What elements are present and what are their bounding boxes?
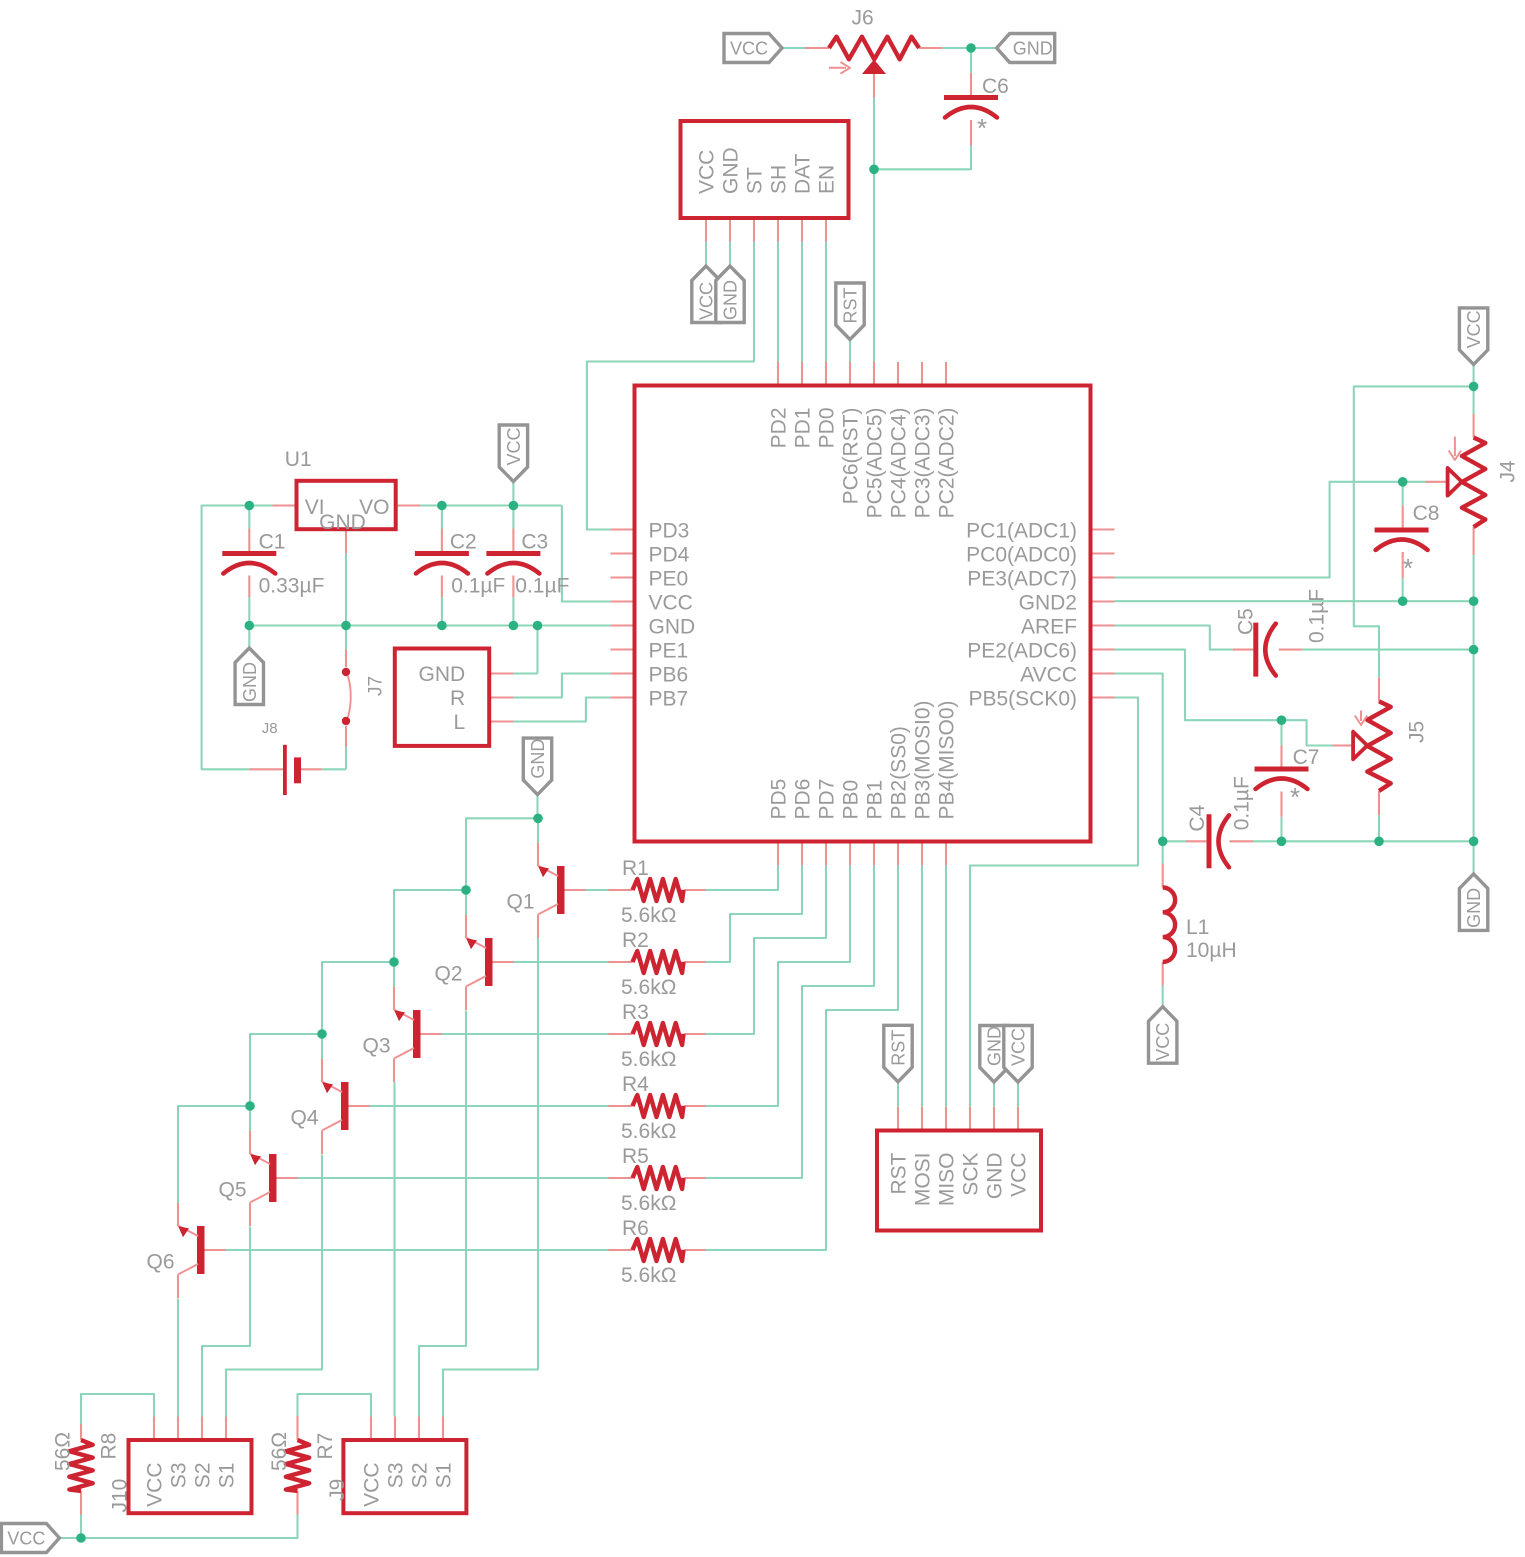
wire emitter ladder Q5-Q6 [178, 1106, 250, 1203]
resistor R4 [633, 1095, 684, 1117]
GND flag above Q1 [523, 738, 551, 795]
svg-text:PB2(SS0): PB2(SS0) [888, 726, 911, 819]
svg-text:SH: SH [768, 165, 791, 194]
wire conn VCC pin to flag [705, 242, 707, 267]
svg-text:PD0: PD0 [816, 408, 839, 449]
svg-text:GND2: GND2 [1019, 592, 1077, 615]
wire R5 to PB1 [706, 865, 875, 1178]
svg-text:PB5(SCK0): PB5(SCK0) [968, 688, 1077, 711]
connector J10 box (VCC S3 S2 S1) [129, 1440, 252, 1513]
wire L1 bottom to VCC flag [1162, 986, 1164, 1007]
wire emitter ladder Q2-Q3 [394, 890, 466, 987]
svg-text:J8: J8 [262, 720, 278, 737]
transistor Q5 [269, 1154, 277, 1202]
wire J6 to GND flag [942, 47, 997, 49]
node C2 top [437, 501, 447, 511]
svg-text:56Ω: 56Ω [268, 1432, 291, 1471]
inductor L1 [1163, 888, 1175, 962]
svg-text:GND: GND [419, 663, 466, 686]
wire Q6 base to R6 [226, 1249, 609, 1251]
node VCC bottom [76, 1533, 86, 1543]
svg-text:R2: R2 [622, 929, 649, 952]
svg-text:PD2: PD2 [768, 408, 791, 449]
wire GND2 to GND column [1115, 600, 1474, 602]
svg-text:PE1: PE1 [649, 640, 689, 663]
resistor R2 [633, 951, 684, 973]
wire VCC flag to J4 top [1473, 364, 1475, 386]
svg-text:VCC: VCC [1153, 1023, 1173, 1061]
battery J8 [283, 745, 287, 795]
wire R8 bottom [80, 1515, 82, 1539]
wire RST flag to PC6 [849, 340, 851, 363]
node C3/VCC flag [509, 501, 519, 511]
wire R7 top to J9 VCC [298, 1394, 372, 1417]
wire GND rail to flag [248, 626, 250, 649]
IC bottom pin stubs [777, 842, 779, 866]
U1 pin stubs [273, 504, 297, 506]
C8 stubs [1402, 506, 1404, 529]
svg-text:R1: R1 [622, 857, 649, 880]
J4 lead stubs [1473, 414, 1475, 438]
node J7 GND [533, 621, 543, 631]
wire GND flag to emitter ladder [536, 795, 538, 819]
wire VCC flag to ISP [1017, 1082, 1019, 1107]
capacitor C1 [222, 551, 276, 556]
connector box (VCC GND ST SH DAT EN) [681, 121, 849, 218]
wire PB4 to MISO [945, 865, 947, 1107]
wire switch to battery - [345, 747, 347, 770]
node C3 bottom [509, 621, 519, 631]
capacitor C2 [415, 551, 469, 556]
wire C7 top lead [1280, 720, 1282, 745]
svg-text:PD4: PD4 [649, 544, 690, 567]
wire J6 right stub [919, 47, 942, 49]
svg-text:AVCC: AVCC [1020, 664, 1077, 687]
wire J6 wiper to PC5(ADC5) [873, 98, 875, 363]
svg-text:PE2(ADC6): PE2(ADC6) [967, 640, 1077, 663]
svg-text:GND: GND [649, 616, 696, 639]
capacitor C5 [1253, 623, 1258, 677]
node J4 bottom GND [1469, 596, 1479, 606]
svg-text:SCK: SCK [960, 1153, 983, 1196]
IC left pin stubs [611, 528, 635, 530]
svg-text:*: * [1403, 553, 1413, 583]
resistor R6 [633, 1239, 684, 1261]
svg-text:DAT: DAT [792, 153, 815, 194]
svg-text:GND: GND [1013, 39, 1053, 59]
resistor R1 [633, 879, 684, 901]
svg-text:PB6: PB6 [649, 664, 689, 687]
wire Q5 collector to J10 S2 [202, 1227, 250, 1417]
svg-text:S2: S2 [192, 1463, 215, 1489]
svg-text:ST: ST [744, 167, 767, 194]
svg-text:Q6: Q6 [147, 1251, 175, 1274]
svg-text:R4: R4 [622, 1073, 649, 1096]
J7 switch stubs [345, 650, 347, 667]
svg-text:C1: C1 [259, 531, 286, 554]
wire DAT to PD1 [801, 242, 803, 363]
wire J5 bottom lead [1378, 815, 1380, 841]
wire GND rail [249, 624, 610, 626]
RST flag above IC [836, 283, 864, 340]
svg-text:S1: S1 [433, 1463, 456, 1489]
svg-text:C3: C3 [521, 531, 548, 554]
svg-text:C7: C7 [1293, 746, 1320, 769]
capacitor C4 [1207, 814, 1212, 868]
svg-text:GND: GND [1464, 888, 1484, 928]
C7 stubs [1280, 745, 1282, 766]
resistor R7 [286, 1440, 309, 1491]
C4 stubs [1186, 840, 1206, 842]
wire VCC flag to J6 [782, 47, 805, 49]
C5 stubs [1233, 649, 1254, 651]
VCC flag under L1 [1149, 1007, 1177, 1063]
trimmer J4 [1462, 438, 1485, 528]
svg-text:PB0: PB0 [840, 780, 863, 820]
svg-text:J9: J9 [326, 1479, 349, 1501]
connector pin stubs [705, 218, 707, 242]
svg-text:R3: R3 [622, 1001, 649, 1024]
switch J7 (battery disconnect) [342, 668, 350, 676]
wire R6 to PB2 [706, 865, 899, 1250]
svg-text:Q1: Q1 [507, 891, 535, 914]
trimmer J5 [1367, 701, 1390, 791]
svg-text:0.1µF: 0.1µF [515, 575, 569, 598]
wire C1 top lead [248, 506, 250, 529]
svg-text:5.6kΩ: 5.6kΩ [621, 976, 676, 999]
GND flag under connector [716, 266, 744, 323]
svg-text:AREF: AREF [1021, 616, 1077, 639]
svg-text:VCC: VCC [504, 427, 524, 465]
svg-text:MOSI: MOSI [912, 1153, 935, 1207]
svg-text:*: * [1290, 782, 1300, 812]
svg-text:5.6kΩ: 5.6kΩ [621, 1264, 676, 1287]
GND flag left rail [235, 648, 263, 705]
svg-text:VCC: VCC [697, 282, 717, 320]
svg-text:L: L [454, 711, 466, 734]
VCC flag under connector [692, 266, 720, 323]
svg-text:GND: GND [240, 662, 260, 702]
svg-text:VCC: VCC [1464, 310, 1484, 348]
wire J7 GND pin up to rail [514, 672, 538, 674]
svg-text:R5: R5 [622, 1145, 649, 1168]
capacitor C3 [486, 551, 540, 556]
svg-text:Q2: Q2 [435, 963, 463, 986]
wire Q6 collector to J10 S3 [177, 1299, 179, 1417]
wire J6 wiper stub [873, 74, 875, 98]
svg-text:PE0: PE0 [649, 568, 689, 591]
svg-text:VCC: VCC [649, 592, 693, 615]
svg-text:R6: R6 [622, 1217, 649, 1240]
svg-text:PB1: PB1 [864, 780, 887, 820]
transistor Q4 [341, 1082, 349, 1130]
wire SH to PD2 [777, 242, 779, 363]
capacitor C6 [944, 95, 998, 100]
L1 stubs [1162, 864, 1164, 888]
svg-text:GND: GND [984, 1153, 1007, 1200]
transistor Q6 [197, 1226, 205, 1274]
svg-text:5.6kΩ: 5.6kΩ [621, 1120, 676, 1143]
svg-text:Q3: Q3 [363, 1035, 391, 1058]
capacitor C7 [1255, 767, 1309, 772]
main IC box ATmega [635, 386, 1091, 842]
node C5 right GND [1469, 645, 1479, 655]
connector J9 box (VCC S3 S2 S1) [343, 1440, 466, 1513]
node J6/GND junction [966, 43, 976, 53]
svg-text:10µH: 10µH [1186, 939, 1237, 962]
node C8 bottom [1398, 596, 1408, 606]
svg-text:L1: L1 [1186, 916, 1209, 939]
node J5 bottom [1374, 837, 1384, 847]
svg-text:GND: GND [721, 280, 741, 320]
svg-text:VCC: VCC [1009, 1028, 1029, 1066]
connector J7 box (GND R L) [395, 649, 489, 746]
svg-text:RST: RST [888, 1152, 911, 1194]
svg-text:GND: GND [720, 147, 743, 194]
svg-text:Q5: Q5 [219, 1179, 247, 1202]
VCC flag top left [724, 34, 782, 63]
node VCC right top [1469, 382, 1479, 392]
ISP pin stubs [897, 1107, 899, 1131]
trimmer J6 [829, 37, 919, 60]
svg-text:EN: EN [816, 165, 839, 194]
svg-text:C8: C8 [1413, 502, 1440, 525]
wire C4 left lead [1163, 840, 1186, 842]
wire C7 junction to J5 wiper [1282, 720, 1333, 745]
R7 lead stubs [296, 1416, 298, 1440]
VCC flag top right [1459, 308, 1487, 365]
svg-text:PD6: PD6 [792, 779, 815, 820]
svg-text:PD1: PD1 [792, 408, 815, 449]
svg-text:GND: GND [319, 511, 366, 534]
R1-R6 lead stubs [609, 889, 633, 891]
wire Q3 collector to J9 S3 [393, 1082, 395, 1417]
svg-text:MISO: MISO [936, 1153, 959, 1207]
svg-text:PC5(ADC5): PC5(ADC5) [864, 408, 887, 519]
wire GND flag to ISP [993, 1082, 995, 1107]
transistor Q2 [485, 938, 493, 986]
capacitor C8 [1375, 528, 1429, 533]
wire Q1 base to R1 [586, 889, 609, 891]
svg-text:GND: GND [985, 1026, 1005, 1066]
node ladder Q2 [461, 885, 471, 895]
IC right pin stubs [1091, 528, 1115, 530]
wire RST flag to ISP [897, 1082, 899, 1107]
svg-text:U1: U1 [285, 448, 312, 471]
wire junction to C6 top [970, 48, 972, 73]
GND flag top right [997, 34, 1055, 63]
wire Q4 base to R4 [370, 1105, 609, 1107]
wire J7 L to PB7 [514, 698, 611, 722]
svg-text:R: R [450, 687, 465, 710]
wire VCC to J5 top [1354, 386, 1474, 678]
J10 pin stubs [153, 1417, 155, 1441]
node AVCC/C4/L1 [1158, 837, 1168, 847]
J5 lead stubs [1378, 678, 1380, 702]
wire conn GND pin to flag [729, 242, 731, 267]
svg-text:0.1µF: 0.1µF [1231, 776, 1254, 830]
wire R8 top to J10 VCC [81, 1394, 154, 1424]
wire Q3 base to R3 [442, 1033, 609, 1035]
wire VO rail to IC VCC [420, 504, 562, 506]
R8 lead stubs [80, 1424, 82, 1440]
wire PE2 to C7 junction [1115, 650, 1282, 721]
wire J7 R to PB6 [514, 674, 611, 698]
wire Q2 base to R2 [514, 961, 609, 963]
wire J6 left stub [805, 47, 829, 49]
J9 pin stubs [370, 1417, 372, 1441]
svg-text:*: * [977, 113, 987, 143]
C1 C2 C3 stubs [248, 529, 250, 552]
wire C2 top lead [441, 506, 443, 529]
svg-text:C5: C5 [1234, 608, 1257, 635]
wire VI to battery + [202, 506, 273, 770]
resistor R3 [633, 1023, 684, 1045]
wire C5 right to GND column [1302, 649, 1474, 651]
wire emitter ladder Q1-Q2 [466, 818, 538, 915]
svg-text:GND: GND [528, 739, 548, 779]
wire R3 to PD7 [706, 865, 827, 1034]
wire Q1 emitter [537, 818, 539, 843]
VCC flag above ISP [1004, 1026, 1032, 1083]
wire C2 bottom lead [441, 597, 443, 626]
svg-text:VCC: VCC [144, 1463, 167, 1507]
svg-text:RST: RST [841, 287, 861, 323]
node C7 bottom [1277, 837, 1287, 847]
wire L1 top lead [1162, 841, 1164, 863]
node VI rail [245, 501, 255, 511]
svg-text:PD7: PD7 [816, 779, 839, 820]
GND flag above ISP [980, 1026, 1008, 1083]
svg-text:C4: C4 [1186, 804, 1209, 831]
connector ISP box (RST MOSI MISO SCK GND VCC) [877, 1131, 1041, 1231]
svg-text:0.1µF: 0.1µF [1305, 589, 1328, 643]
svg-text:PC4(ADC4): PC4(ADC4) [888, 408, 911, 519]
svg-text:J7: J7 [365, 676, 386, 696]
wire C6 bottom to J6 wiper net [874, 146, 971, 170]
svg-text:J5: J5 [1405, 721, 1428, 743]
svg-text:RST: RST [889, 1030, 909, 1066]
svg-text:PE3(ADC7): PE3(ADC7) [967, 568, 1077, 591]
wire C4 right to GND column [1253, 840, 1474, 842]
node GND flag ladder [533, 814, 543, 824]
svg-text:S2: S2 [409, 1463, 432, 1489]
svg-text:VCC: VCC [361, 1463, 384, 1507]
svg-text:0.1µF: 0.1µF [451, 575, 505, 598]
resistor R8 [69, 1440, 92, 1491]
svg-text:PC1(ADC1): PC1(ADC1) [966, 520, 1077, 543]
node C1 bottom [245, 621, 255, 631]
svg-text:J6: J6 [852, 7, 874, 30]
node ladder Q4 [317, 1029, 327, 1039]
svg-text:R8: R8 [98, 1433, 121, 1460]
wire R2 to PD6 [706, 865, 803, 962]
wire PB3 to MOSI [921, 865, 923, 1107]
svg-text:56Ω: 56Ω [52, 1432, 75, 1471]
regulator U1 [297, 481, 396, 529]
J4 wiper stub [1426, 481, 1448, 483]
svg-text:S1: S1 [216, 1463, 239, 1489]
svg-text:0.33µF: 0.33µF [259, 575, 325, 598]
svg-text:PC0(ADC0): PC0(ADC0) [966, 544, 1077, 567]
resistor R5 [633, 1167, 684, 1189]
wire SCK to PB5 [970, 698, 1138, 1107]
node ladder Q5 [245, 1101, 255, 1111]
wire rail to switch J7 [345, 626, 347, 651]
svg-text:C6: C6 [982, 75, 1009, 98]
svg-text:5.6kΩ: 5.6kΩ [621, 904, 676, 927]
wire J4 bottom / GND column [1473, 555, 1475, 874]
VCC flag above C3 [499, 425, 527, 482]
J7 pin stubs [489, 672, 513, 674]
wire R1 to PD5 [706, 865, 779, 890]
svg-text:C2: C2 [450, 531, 477, 554]
svg-text:J10: J10 [109, 1479, 132, 1513]
wire R4 to PB0 [706, 865, 851, 1106]
svg-text:PC2(ADC2): PC2(ADC2) [936, 408, 959, 519]
J5 wiper stub [1333, 744, 1354, 746]
wire Q2 collector to J9 S2 [419, 1011, 466, 1417]
wire C6 stubs [970, 73, 972, 96]
svg-text:S3: S3 [168, 1463, 191, 1489]
node ladder Q3 [389, 957, 399, 967]
wire Q1 collector to J9 S1 [443, 938, 538, 1417]
svg-text:VCC: VCC [7, 1529, 45, 1549]
wire emitter ladder Q4-Q5 [250, 1034, 322, 1131]
transistor Q3 [413, 1010, 421, 1058]
svg-text:VCC: VCC [730, 39, 768, 59]
svg-text:Q4: Q4 [291, 1107, 319, 1130]
VCC flag bottom left [1, 1524, 59, 1553]
GND flag bottom right [1459, 874, 1487, 931]
wire ST to PD3 [587, 242, 754, 530]
node GND right bottom [1469, 837, 1479, 847]
svg-text:S3: S3 [385, 1463, 408, 1489]
wire C3 top lead [512, 506, 514, 529]
node C2 bottom [437, 621, 447, 631]
svg-text:PB4(MISO0): PB4(MISO0) [936, 700, 959, 819]
wire U1 GND pin down [345, 553, 347, 626]
wire Q4 collector to J10 S1 [226, 1155, 322, 1417]
wire C3 bottom lead [512, 597, 514, 626]
svg-text:5.6kΩ: 5.6kΩ [621, 1192, 676, 1215]
wire PE3 to J4 wiper [1115, 482, 1403, 578]
RST flag above ISP [884, 1025, 912, 1082]
svg-text:R7: R7 [314, 1433, 337, 1460]
wire C8 bottom lead [1402, 578, 1404, 601]
svg-text:PC6(RST): PC6(RST) [840, 408, 863, 505]
wire C7 bottom lead [1280, 817, 1282, 842]
svg-text:VCC: VCC [696, 150, 719, 194]
transistor Q1 [557, 866, 565, 914]
svg-text:PD5: PD5 [768, 779, 791, 820]
J8 battery stubs [249, 768, 283, 770]
svg-text:J4: J4 [1496, 460, 1519, 483]
wire Q5 base to R5 [298, 1177, 609, 1179]
wire emitter ladder Q3-Q4 [322, 962, 394, 1059]
svg-text:PB7: PB7 [649, 688, 689, 711]
node U1 GND / J7 switch [341, 621, 351, 631]
svg-text:VCC: VCC [1008, 1153, 1031, 1197]
svg-text:PC3(ADC3): PC3(ADC3) [912, 408, 935, 519]
wire VCC bottom rail [59, 1515, 297, 1539]
wire C1 bottom lead [248, 597, 250, 626]
node C6/wiper junction [869, 165, 879, 175]
svg-text:PD3: PD3 [649, 520, 690, 543]
wire VCC flag to rail [512, 482, 514, 506]
IC top pin stubs [777, 362, 779, 386]
wire AREF to C5 [1115, 626, 1233, 650]
